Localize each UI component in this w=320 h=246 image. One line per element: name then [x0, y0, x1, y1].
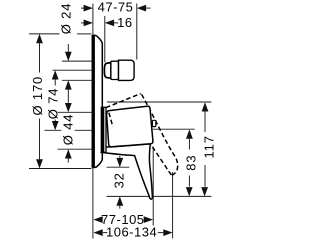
wire: dim line D170	[39, 43, 41, 72]
handle underside and lever blade	[100, 144, 152, 199]
arrow 106-134 left	[93, 229, 102, 236]
diverter cylinder	[111, 61, 119, 79]
svg-text:Ø 24: Ø 24	[59, 3, 74, 35]
handle grip	[107, 106, 153, 147]
arrow D170 down	[36, 159, 43, 168]
escutcheon plate profile (side view)	[92, 35, 103, 167]
handle collar sleeve	[101, 107, 106, 152]
wire: wall-face extension line bottom	[92, 168, 94, 239]
wire: ext line 77-105 right	[152, 147, 154, 226]
wire: dim line D74	[54, 80, 56, 86]
wire: ext line 32 top	[107, 166, 130, 168]
wire: ext line D44 top	[58, 111, 92, 113]
wire: ext line plate bottom (D170)	[29, 168, 92, 170]
wire: dim line 117	[204, 112, 206, 133]
wire: wall-face extension line top	[92, 4, 94, 36]
wire: dim 16 arrow tails	[81, 22, 84, 24]
wire: ext line D74 top	[53, 69, 92, 71]
svg-text:47-75: 47-75	[98, 0, 134, 15]
arrow 16 right	[105, 20, 114, 27]
svg-text:Ø 44: Ø 44	[60, 114, 75, 146]
svg-text:16: 16	[117, 15, 132, 30]
arrow D24 down	[65, 52, 72, 61]
arrow 117 down	[201, 187, 208, 196]
wire: ext line D24 top	[62, 60, 92, 62]
diverter cone ring	[104, 63, 111, 79]
arrow 106-134 right	[163, 229, 172, 236]
arrow D74 down	[52, 121, 59, 130]
svg-text:83: 83	[184, 155, 199, 171]
svg-text:Ø 170: Ø 170	[30, 76, 45, 116]
arrow D44 down	[65, 103, 72, 112]
wire: ext line plate top (D170), broken under D24 label	[29, 33, 60, 35]
arrow 117 up	[202, 102, 209, 111]
arrow D44 up	[65, 149, 72, 158]
arrow 83 up	[186, 129, 193, 138]
arrow 47-75 left	[84, 5, 93, 12]
wire: extension line stem cone face (16)	[104, 16, 106, 62]
arrow D24 up	[65, 80, 72, 89]
wire: dim line D24 chain	[67, 44, 69, 52]
arrow D74 up	[52, 70, 59, 79]
arrow 83 down	[186, 187, 193, 196]
svg-text:32: 32	[112, 172, 127, 188]
wire: dim line 83	[188, 139, 190, 150]
wire: extension line stem cap end (47-75)	[136, 4, 138, 60]
wire: ext line 117 top	[107, 101, 211, 103]
arrow 32 down	[116, 158, 123, 167]
wire: ext line D74 bottom broken by text	[45, 129, 62, 131]
dashed raised grip left edge (over grip)	[109, 113, 113, 127]
svg-text:Ø 74: Ø 74	[46, 88, 61, 120]
arrow 32 up	[116, 196, 123, 205]
wire: dim line 32	[119, 156, 121, 158]
dashed raised blade inner edge	[149, 141, 172, 176]
dashed raised handle right edge and blade outer edge	[142, 94, 178, 175]
wall face thick bar of plate	[92, 35, 95, 167]
wire: ext line D44 bottom	[58, 148, 92, 150]
wire: ext line 83 top	[153, 128, 195, 130]
wire: shared bottom ext line (32/83/117)	[107, 195, 212, 197]
svg-text:106-134: 106-134	[106, 225, 157, 240]
arrow D170 up	[36, 34, 43, 43]
arrow 77-105 left	[93, 216, 102, 223]
dashed raised handle top edge	[106, 94, 141, 108]
diverter cap	[119, 60, 135, 80]
arrow 16 left	[84, 20, 93, 27]
arrow 47-75 right	[137, 5, 146, 12]
arrow 77-105 right	[144, 216, 153, 223]
svg-text:117: 117	[202, 135, 217, 158]
wire: dim 47-75 arrow tails	[81, 7, 84, 9]
wire: dim line D44 tail	[67, 159, 69, 163]
wire: ext line 106-134 right	[172, 172, 174, 239]
wire: ext line D24 bottom	[62, 79, 92, 81]
handle side tab	[152, 120, 155, 126]
wire: dim line 106-134 tails	[103, 232, 107, 234]
